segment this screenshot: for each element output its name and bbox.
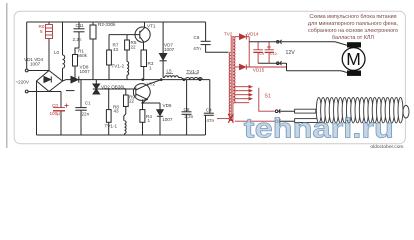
svg-text:C4: C4	[206, 108, 212, 113]
svg-text:R2-330k: R2-330k	[98, 22, 116, 27]
svg-text:22: 22	[131, 45, 137, 50]
svg-text:C6: C6	[194, 35, 200, 40]
svg-text:1: 1	[148, 118, 151, 123]
svg-text:L5: L5	[167, 69, 173, 74]
svg-text:22: 22	[129, 99, 135, 104]
svg-text:C10: C10	[270, 52, 277, 56]
svg-text:2,2n: 2,2n	[73, 37, 82, 42]
svg-text:TV1-1: TV1-1	[105, 123, 118, 128]
svg-text:2,2n: 2,2n	[184, 114, 193, 119]
svg-text:oldoctober.com: oldoctober.com	[370, 144, 403, 150]
svg-text:12V: 12V	[286, 50, 296, 56]
svg-text:VD15: VD15	[253, 67, 265, 72]
svg-text:VD2 OB38L: VD2 OB38L	[101, 85, 126, 90]
svg-text:C1: C1	[85, 100, 91, 105]
svg-text:1007: 1007	[164, 47, 175, 52]
svg-text:43: 43	[113, 47, 119, 52]
svg-text:TV1-3: TV1-3	[187, 69, 200, 74]
svg-text:Схема импульсного блока питани: Схема импульсного блока питания	[309, 14, 396, 20]
svg-text:43: 43	[114, 108, 120, 113]
svg-text:47n: 47n	[193, 46, 201, 51]
svg-text:1007: 1007	[30, 62, 41, 67]
svg-text:1007: 1007	[162, 117, 173, 122]
svg-text:M: M	[346, 49, 361, 69]
svg-text:VD14: VD14	[247, 31, 259, 36]
svg-text:C11: C11	[76, 23, 85, 28]
svg-text:для миниатюрного паяльного фен: для миниатюрного паяльного фена,	[308, 21, 399, 27]
svg-text:VD6: VD6	[163, 103, 172, 108]
svg-text:1: 1	[149, 65, 152, 70]
svg-text:~220V: ~220V	[16, 80, 30, 85]
svg-text:TV1-2: TV1-2	[112, 64, 125, 69]
svg-text:C8: C8	[184, 107, 190, 112]
svg-text:собранного на основе электронн: собранного на основе электронного	[308, 28, 398, 34]
svg-text:L0: L0	[54, 50, 60, 55]
svg-text:tehnari.ru: tehnari.ru	[244, 114, 394, 144]
svg-text:балласта от КЛЛ: балласта от КЛЛ	[332, 35, 374, 41]
svg-text:22n: 22n	[82, 111, 90, 116]
svg-text:5: 5	[40, 29, 43, 34]
svg-text:S1: S1	[265, 94, 271, 100]
svg-text:VT2: VT2	[147, 81, 156, 86]
svg-text:47n: 47n	[206, 118, 214, 123]
svg-text:100µ: 100µ	[50, 111, 61, 116]
svg-text:VT1: VT1	[147, 24, 156, 29]
svg-text:560k: 560k	[77, 53, 88, 58]
svg-text:TV2: TV2	[224, 32, 233, 37]
svg-text:C0: C0	[52, 103, 58, 108]
svg-text:1007: 1007	[80, 69, 91, 74]
svg-text:C9: C9	[259, 52, 264, 56]
